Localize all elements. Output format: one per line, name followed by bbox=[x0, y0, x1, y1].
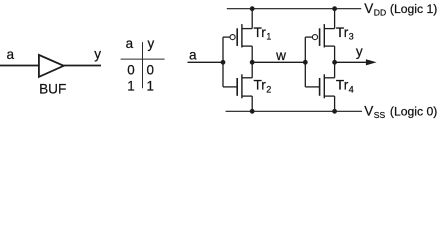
buffer BUF bbox=[39, 55, 64, 77]
svg-text:Tr: Tr bbox=[254, 25, 267, 40]
transistor Tr2 (NMOS) bbox=[223, 74, 252, 98]
svg-text:DD: DD bbox=[374, 8, 386, 18]
svg-text:1: 1 bbox=[127, 79, 134, 94]
junction dot Tr1 to VDD bbox=[250, 6, 255, 11]
svg-text:3: 3 bbox=[349, 32, 354, 42]
svg-text:a: a bbox=[126, 36, 134, 51]
junction dot Tr3 to VDD bbox=[332, 6, 337, 11]
VSS rail bbox=[226, 110, 362, 112]
svg-text:y: y bbox=[356, 44, 363, 59]
junction dot node y bbox=[332, 60, 337, 65]
svg-text:BUF: BUF bbox=[39, 81, 66, 96]
svg-text:a: a bbox=[189, 47, 197, 62]
svg-text:0: 0 bbox=[127, 63, 134, 78]
label Tr1 bbox=[254, 25, 272, 42]
wire y (buffer output) bbox=[64, 65, 101, 67]
svg-text:0: 0 bbox=[146, 63, 153, 78]
label Tr4 bbox=[336, 77, 354, 94]
svg-text:a: a bbox=[7, 47, 15, 62]
truth table vertical rule bbox=[142, 42, 144, 88]
svg-text:4: 4 bbox=[349, 85, 354, 95]
junction dot input to gates stage1 bbox=[221, 60, 226, 65]
svg-text:(Logic 1): (Logic 1) bbox=[390, 2, 437, 16]
wire w bbox=[252, 61, 305, 63]
label VSS bbox=[364, 103, 385, 120]
label Tr3 bbox=[336, 25, 354, 42]
svg-text:Tr: Tr bbox=[254, 77, 267, 92]
wire y (cmos output) bbox=[335, 61, 367, 63]
wire drain bus stage1 bbox=[251, 9, 253, 112]
wire gate bus stage1 bbox=[222, 37, 224, 87]
wire drain bus stage2 bbox=[334, 9, 336, 112]
svg-text:(Logic 0): (Logic 0) bbox=[390, 104, 437, 118]
junction dot node w bbox=[250, 60, 255, 65]
transistor Tr4 (NMOS) bbox=[305, 74, 334, 98]
svg-text:1: 1 bbox=[266, 32, 271, 42]
wire gate bus stage2 bbox=[304, 37, 306, 87]
transistor Tr1 (PMOS) bbox=[223, 24, 252, 47]
svg-text:1: 1 bbox=[146, 79, 153, 94]
transistor Tr3 (PMOS) bbox=[305, 24, 334, 47]
label VDD bbox=[364, 1, 386, 18]
VDD rail bbox=[227, 8, 361, 10]
label Tr2 bbox=[254, 77, 272, 94]
svg-text:2: 2 bbox=[266, 85, 271, 95]
svg-text:Tr: Tr bbox=[336, 25, 349, 40]
svg-text:V: V bbox=[364, 103, 373, 118]
svg-text:V: V bbox=[364, 1, 373, 16]
svg-text:y: y bbox=[148, 36, 155, 51]
wire a (buffer input) bbox=[0, 65, 40, 67]
junction dot Tr2 to VSS bbox=[250, 109, 255, 114]
junction dot w to gates stage2 bbox=[303, 60, 308, 65]
wire a (cmos input) bbox=[188, 61, 224, 63]
svg-text:y: y bbox=[94, 46, 101, 61]
truth table horizontal rule bbox=[121, 58, 165, 60]
svg-text:Tr: Tr bbox=[336, 77, 349, 92]
junction dot Tr4 to VSS bbox=[332, 109, 337, 114]
svg-text:w: w bbox=[275, 48, 286, 63]
svg-text:SS: SS bbox=[374, 110, 386, 120]
arrowhead output y bbox=[366, 59, 377, 65]
